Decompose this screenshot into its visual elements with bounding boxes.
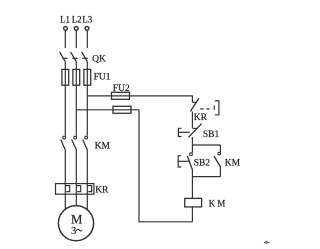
fuse FU1 phase3 (84, 69, 91, 85)
contactor KM main contact 1 (63, 136, 66, 139)
svg-text:L3: L3 (82, 14, 92, 24)
SB1 actuator cap (178, 128, 181, 136)
wire FU1 phase2 down to KM contact (75, 85, 77, 136)
wire QK pole1 to FU1 (64, 62, 66, 70)
switch QK pole 2 blade (71, 52, 77, 62)
svg-text:M: M (71, 212, 82, 226)
fuse FU2 lower (113, 106, 131, 113)
wire lower control feed from L2 phase (76, 109, 139, 111)
wire FU1 phase1 down to KM contact (64, 85, 66, 136)
wire FU1 phase3 down to KM contact (86, 85, 88, 136)
node L3 terminal (85, 27, 89, 31)
wire branch top to KM aux (192, 144, 220, 146)
svg-text:SB1: SB1 (203, 130, 220, 140)
fuse FU1 phase1 (62, 69, 69, 85)
wire QK pole3 to FU1 (86, 62, 88, 70)
motor tilde (76, 229, 82, 231)
wire left control rail (139, 110, 192, 222)
KR heater element 3 (87, 186, 91, 192)
fuse FU2 upper (112, 92, 130, 99)
node L1 terminal (64, 27, 68, 31)
svg-text:L2: L2 (72, 14, 82, 24)
wire SB1 to junction (191, 137, 193, 145)
relay KR NC contact in control circuit (192, 101, 196, 103)
wire KR to motor phase1 (64, 194, 66, 209)
cursor arrow artifact (264, 240, 270, 244)
wire junction to KM coil (191, 177, 193, 199)
svg-text:K M: K M (209, 198, 226, 208)
wire KR to motor phase3 (86, 194, 88, 210)
svg-text:KR: KR (194, 113, 208, 123)
switch QK pole 3 blade (82, 52, 88, 62)
QK linkage dashed line (62, 57, 87, 59)
switch QK pole 1 blade (60, 52, 66, 62)
contactor KM main contact 3 (85, 136, 88, 139)
svg-text:QK: QK (92, 54, 106, 64)
wire KR contact to SB1 (191, 112, 193, 128)
fuse FU1 phase2 (73, 69, 80, 85)
KR heater element 1 (65, 186, 69, 192)
overload relay KR box (56, 184, 94, 195)
node L2 terminal (74, 27, 78, 31)
wire KM contact2 to KR box (75, 150, 77, 184)
coil KM (185, 198, 202, 207)
wire KR to motor phase2 (75, 194, 77, 205)
pushbutton SB1 (NC stop) (192, 127, 196, 129)
svg-text:SB2: SB2 (194, 159, 211, 169)
KR trip tick (213, 105, 215, 109)
svg-text:KM: KM (95, 141, 111, 151)
wire SB2 to junction (191, 170, 193, 177)
KR trip bracket (215, 101, 219, 115)
contactor KM auxiliary contact (219, 145, 221, 153)
svg-text:L1: L1 (60, 14, 70, 24)
svg-text:KR: KR (95, 186, 109, 196)
wire KM coil to bottom rail (191, 207, 193, 222)
svg-text:FU1: FU1 (94, 73, 111, 83)
svg-text:3: 3 (71, 226, 76, 237)
contactor KM main contact 2 (74, 136, 77, 139)
wire L2 to QK (75, 31, 77, 48)
svg-text:FU2: FU2 (113, 84, 130, 94)
KR contact dashes (200, 108, 209, 110)
wire QK pole2 to FU1 (75, 62, 77, 70)
wire upper control feed from L3 phase (87, 96, 192, 102)
wire KM contact3 to KR box (86, 150, 88, 184)
pushbutton SB2 (NO start) (191, 145, 193, 153)
KR heater element 2 (76, 186, 80, 192)
wire L3 to QK (86, 31, 88, 48)
SB2 actuator cap (178, 156, 181, 167)
svg-text:KM: KM (225, 159, 241, 169)
wire branch bottom (192, 176, 220, 178)
wire KM contact1 to KR box (64, 150, 66, 184)
motor M circle (58, 206, 93, 241)
wire L1 to QK (64, 31, 66, 48)
